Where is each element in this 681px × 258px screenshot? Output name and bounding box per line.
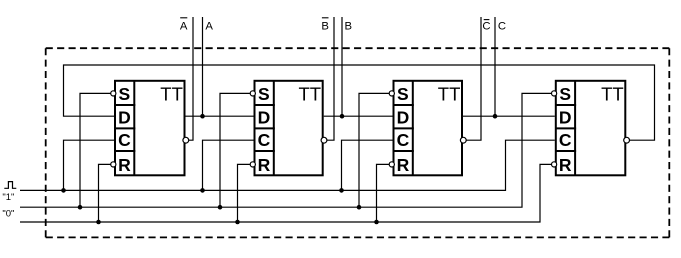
feedback wire Q4-inv to D1: [64, 65, 655, 140]
wire B tap riser: [341, 17, 343, 116]
junction node A on Q1 wire: [200, 114, 205, 119]
flip-flop DD3 input column divider: [412, 81, 414, 176]
wire C input of DD2 from clock rail: [203, 140, 254, 190]
logic "0" rail wire: [20, 164, 552, 222]
inversion bubble S input DD1: [111, 91, 116, 96]
flip-flop DD4 cell divider: [556, 104, 576, 106]
wire Q output of DD2 to D of DD3: [324, 115, 393, 117]
flip-flop DD2 body: [255, 81, 323, 176]
svg-text:TT: TT: [160, 84, 183, 105]
svg-text:B: B: [345, 20, 353, 32]
svg-text:C: C: [559, 130, 572, 150]
flip-flop DD4 cell divider: [556, 127, 576, 129]
inversion bubble R input DD1: [111, 162, 116, 167]
junction "0" rail / R of DD2: [235, 220, 240, 225]
flip-flop DD3 body: [394, 81, 463, 176]
svg-text:C: C: [498, 20, 506, 32]
wire Q output of DD1 to D of DD2: [186, 115, 254, 117]
wire R input of DD2 from "0" rail: [238, 164, 251, 222]
svg-text:S: S: [397, 84, 409, 104]
svg-text:TT: TT: [298, 84, 321, 105]
flip-flop DD1 body: [115, 81, 185, 176]
wire C tap riser: [494, 17, 496, 116]
flip-flop DD2 cell divider: [255, 150, 275, 152]
svg-text:TT: TT: [438, 84, 461, 105]
dashed enclosure border: [46, 48, 670, 237]
junction "1" rail / S of DD3: [357, 205, 362, 210]
wire Q2-inv to Bbar label: [327, 17, 334, 140]
svg-text:C: C: [397, 130, 410, 150]
junction "0" rail / R of DD3: [374, 220, 379, 225]
flip-flop DD4 cell divider: [556, 150, 576, 152]
wire S input of DD2 from "1" rail: [220, 93, 250, 207]
junction node C on Q3 wire: [493, 114, 498, 119]
svg-text:R: R: [397, 155, 410, 175]
wire Q1-inv to Abar label: [189, 17, 193, 140]
svg-text:"0": "0": [2, 208, 14, 219]
flip-flop DD3 cell divider: [394, 150, 414, 152]
svg-text:D: D: [559, 107, 572, 127]
wire Q3-inv to Cbar label: [466, 17, 481, 140]
svg-text:A: A: [180, 20, 188, 32]
flip-flop DD1 cell divider: [115, 127, 135, 129]
flip-flop DD2 input column divider: [273, 81, 275, 176]
flip-flop DD1 cell divider: [115, 150, 135, 152]
svg-text:D: D: [118, 107, 131, 127]
inversion bubble R input DD4: [552, 162, 557, 167]
wire S input of DD3 from "1" rail: [359, 93, 389, 207]
junction "1" rail / S of DD1: [78, 205, 83, 210]
wire C input of DD3 from clock rail: [342, 140, 393, 190]
svg-text:D: D: [258, 107, 271, 127]
svg-text:C: C: [482, 20, 490, 32]
svg-text:S: S: [559, 84, 571, 104]
flip-flop DD1 input column divider: [133, 81, 135, 176]
junction clock rail / C of DD1: [61, 188, 66, 193]
junction clock rail / C of DD2: [200, 188, 205, 193]
wire R input of DD1 from "0" rail: [99, 164, 111, 222]
flip-flop DD3 cell divider: [394, 104, 414, 106]
clock rail wire: [20, 140, 555, 190]
clock pulse input symbol: [4, 182, 16, 189]
svg-text:TT: TT: [601, 84, 624, 105]
flip-flop DD4 body: [556, 81, 626, 176]
inversion bubble Q-inv output DD2: [321, 137, 327, 143]
flip-flop DD2 cell divider: [255, 104, 275, 106]
inversion bubble Q-inv output DD3: [460, 137, 466, 143]
wire C input of DD1 from clock rail: [64, 140, 115, 190]
flip-flop DD2 cell divider: [255, 127, 275, 129]
wire R input of DD3 from "0" rail: [377, 164, 390, 222]
svg-text:C: C: [118, 130, 131, 150]
inversion bubble R input DD3: [389, 162, 394, 167]
inversion bubble S input DD2: [250, 91, 255, 96]
inversion bubble S input DD3: [389, 91, 394, 96]
logic "1" rail wire: [20, 93, 552, 207]
svg-text:R: R: [118, 155, 131, 175]
inversion bubble Q-inv output DD4: [624, 137, 630, 143]
svg-text:R: R: [559, 155, 572, 175]
svg-text:C: C: [258, 130, 271, 150]
junction clock rail / C of DD3: [339, 188, 344, 193]
svg-text:S: S: [258, 84, 270, 104]
inversion bubble S input DD4: [552, 91, 557, 96]
svg-text:B: B: [321, 20, 329, 32]
svg-text:D: D: [397, 107, 410, 127]
inversion bubble R input DD2: [250, 162, 255, 167]
svg-text:A: A: [205, 20, 213, 32]
svg-text:"1": "1": [2, 192, 14, 203]
svg-text:R: R: [258, 155, 271, 175]
flip-flop DD4 input column divider: [574, 81, 576, 176]
inversion bubble Q-inv output DD1: [183, 137, 189, 143]
junction node B on Q2 wire: [340, 114, 345, 119]
svg-text:S: S: [119, 84, 131, 104]
wire S input of DD1 from "1" rail: [80, 93, 111, 207]
wire A tap riser: [202, 17, 204, 116]
flip-flop DD3 cell divider: [394, 127, 414, 129]
junction "0" rail / R of DD1: [96, 220, 101, 225]
flip-flop DD1 cell divider: [115, 104, 135, 106]
junction "1" rail / S of DD2: [218, 205, 223, 210]
wire Q output of DD3 to D of DD4: [463, 115, 555, 117]
